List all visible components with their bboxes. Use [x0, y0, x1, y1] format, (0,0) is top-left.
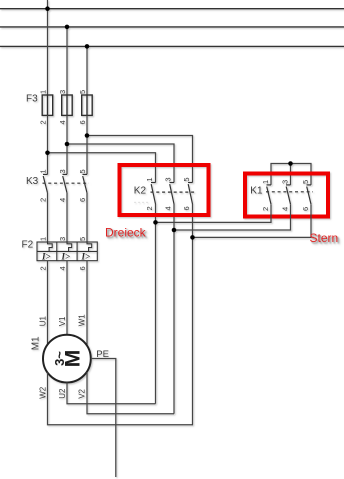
svg-text:3~: 3~ [52, 351, 67, 366]
svg-text:3: 3 [58, 90, 67, 94]
svg-text:4: 4 [164, 206, 173, 210]
wire K1 pole1 to K2 pole1 [156, 204, 272, 222]
svg-text:5: 5 [182, 177, 191, 181]
wire motor W2 loop [48, 372, 194, 424]
contactor K3 contact 3 [83, 174, 88, 192]
svg-text:F2: F2 [22, 240, 34, 251]
wire F3 pole1 to K3 [47, 115, 49, 174]
fuse F3 pole 3 [82, 95, 93, 115]
svg-text:2: 2 [261, 207, 270, 211]
wire F2 pole2 to motor V1 [66, 261, 68, 335]
svg-text:I>: I> [41, 251, 51, 261]
svg-text:6: 6 [78, 120, 87, 124]
wire K2 pole1 lower [155, 204, 157, 404]
svg-text:2: 2 [145, 206, 154, 210]
svg-text:5: 5 [78, 169, 87, 173]
svg-text:6: 6 [182, 206, 191, 210]
svg-text:K3: K3 [26, 176, 39, 187]
svg-text:I>: I> [81, 251, 91, 261]
contactor K2 contact 3 [188, 183, 193, 205]
contactor K2 grey dots [134, 202, 147, 203]
svg-text:1: 1 [39, 169, 48, 173]
wire motor U2 loop [67, 383, 156, 404]
svg-text:5: 5 [78, 90, 87, 94]
svg-text:K2: K2 [134, 185, 147, 196]
wire branch L3 to K2 pin5 [87, 136, 193, 183]
node branch L1 [45, 151, 50, 156]
contactor K1 coupling dashes [266, 191, 313, 193]
wire K1 bridge center stub [290, 164, 292, 185]
contactor K1 contact 3 [307, 185, 312, 204]
wire K3 pole3 to F2 [86, 193, 88, 242]
contactor K2 contact 1 [151, 183, 156, 205]
svg-text:5: 5 [78, 237, 87, 241]
contactor K1 contact 2 [286, 185, 291, 204]
svg-text:F3: F3 [26, 94, 38, 105]
contactor K3 contact 1 [43, 174, 48, 192]
node L1 junction [45, 6, 50, 11]
svg-text:4: 4 [58, 266, 67, 270]
node branch L3 [85, 133, 90, 138]
fuse F3 pole 2 [62, 95, 72, 115]
svg-text:3: 3 [58, 237, 67, 241]
svg-text:V1: V1 [58, 316, 67, 326]
node L2 junction [65, 25, 70, 30]
svg-text:M1: M1 [31, 336, 42, 350]
wire F3 pole2 to K3 [66, 115, 68, 174]
svg-text:V2: V2 [78, 388, 87, 398]
svg-text:4: 4 [280, 207, 289, 211]
overload relay F2 thermal element 1 [48, 242, 53, 251]
wire L2 bus [0, 26, 344, 28]
svg-text:5: 5 [301, 180, 310, 184]
wire K2 pole3 lower [192, 204, 194, 425]
wire branch L2 to K2 pin3 [67, 144, 174, 183]
svg-text:2: 2 [39, 120, 48, 124]
svg-text:W2: W2 [39, 386, 48, 399]
wire F2 pole1 to motor U1 [47, 261, 49, 345]
contactor K3 contact 2 [63, 174, 68, 192]
wire F3 pole3 to K3 [86, 115, 88, 174]
wire L1 bus [0, 8, 344, 10]
contactor K2 contact 2 [170, 183, 175, 205]
wire branch L1 to K2 pin1 [48, 153, 156, 183]
overload relay F2 body [37, 242, 97, 261]
svg-text:3: 3 [58, 169, 67, 173]
svg-text:Dreieck: Dreieck [105, 226, 147, 240]
wire K1 star bridge [271, 164, 311, 185]
wire motor V2 loop [87, 372, 174, 413]
svg-text:U1: U1 [39, 316, 48, 327]
svg-text:1: 1 [39, 237, 48, 241]
wire K2 pole2 lower [173, 204, 175, 414]
svg-text:2: 2 [39, 266, 48, 270]
wire PE [91, 359, 116, 478]
wire L3 bus [0, 45, 344, 47]
motor M1 circle [43, 335, 91, 383]
highlight box K2 (red) [120, 165, 209, 215]
svg-text:2: 2 [39, 198, 48, 202]
fuse F3 pole 1 [42, 95, 53, 115]
svg-text:6: 6 [78, 198, 87, 202]
node K2-K1 link 2 [172, 228, 177, 233]
overload relay F2 thermal element 2 [67, 242, 72, 251]
contactor K2 coupling dashes [151, 191, 197, 193]
wire L2 drop to F3 [66, 27, 68, 95]
node branch L2 [65, 142, 70, 147]
wire L3 drop to F3 [86, 46, 88, 95]
node star point [288, 161, 293, 166]
wire K3 pole1 to F2 [47, 193, 49, 242]
svg-text:I>: I> [61, 251, 71, 261]
node K2-K1 link 1 [153, 220, 158, 225]
wire K3 pole2 to F2 [66, 193, 68, 242]
svg-text:3: 3 [164, 177, 173, 181]
wire L1 stub above junction [47, 0, 49, 9]
contactor K1 contact 1 [267, 185, 272, 204]
svg-text:1: 1 [39, 90, 48, 94]
overload relay F2 thermal element 3 [87, 242, 92, 251]
svg-text:W1: W1 [78, 314, 87, 327]
wire L1 drop to F3 [47, 9, 49, 95]
svg-text:3: 3 [280, 180, 289, 184]
wire F2 pole3 to motor W1 [86, 261, 88, 345]
svg-text:4: 4 [58, 120, 67, 124]
svg-text:4: 4 [58, 198, 67, 202]
highlight box K1 (red) [245, 174, 328, 217]
svg-text:Stern: Stern [310, 231, 339, 245]
contactor K3 coupling dashes [43, 182, 90, 184]
svg-text:1: 1 [261, 180, 270, 184]
svg-text:U2: U2 [58, 388, 67, 399]
node K2-K1 link 3 [190, 235, 195, 240]
svg-text:1: 1 [145, 177, 154, 181]
svg-text:6: 6 [301, 207, 310, 211]
svg-text:K1: K1 [250, 186, 263, 197]
wire K1 pole2 to K2 pole2 [174, 204, 291, 230]
svg-text:6: 6 [78, 266, 87, 270]
wire K1 pole3 to K2 pole3 [193, 204, 312, 237]
node L3 junction [85, 44, 90, 49]
